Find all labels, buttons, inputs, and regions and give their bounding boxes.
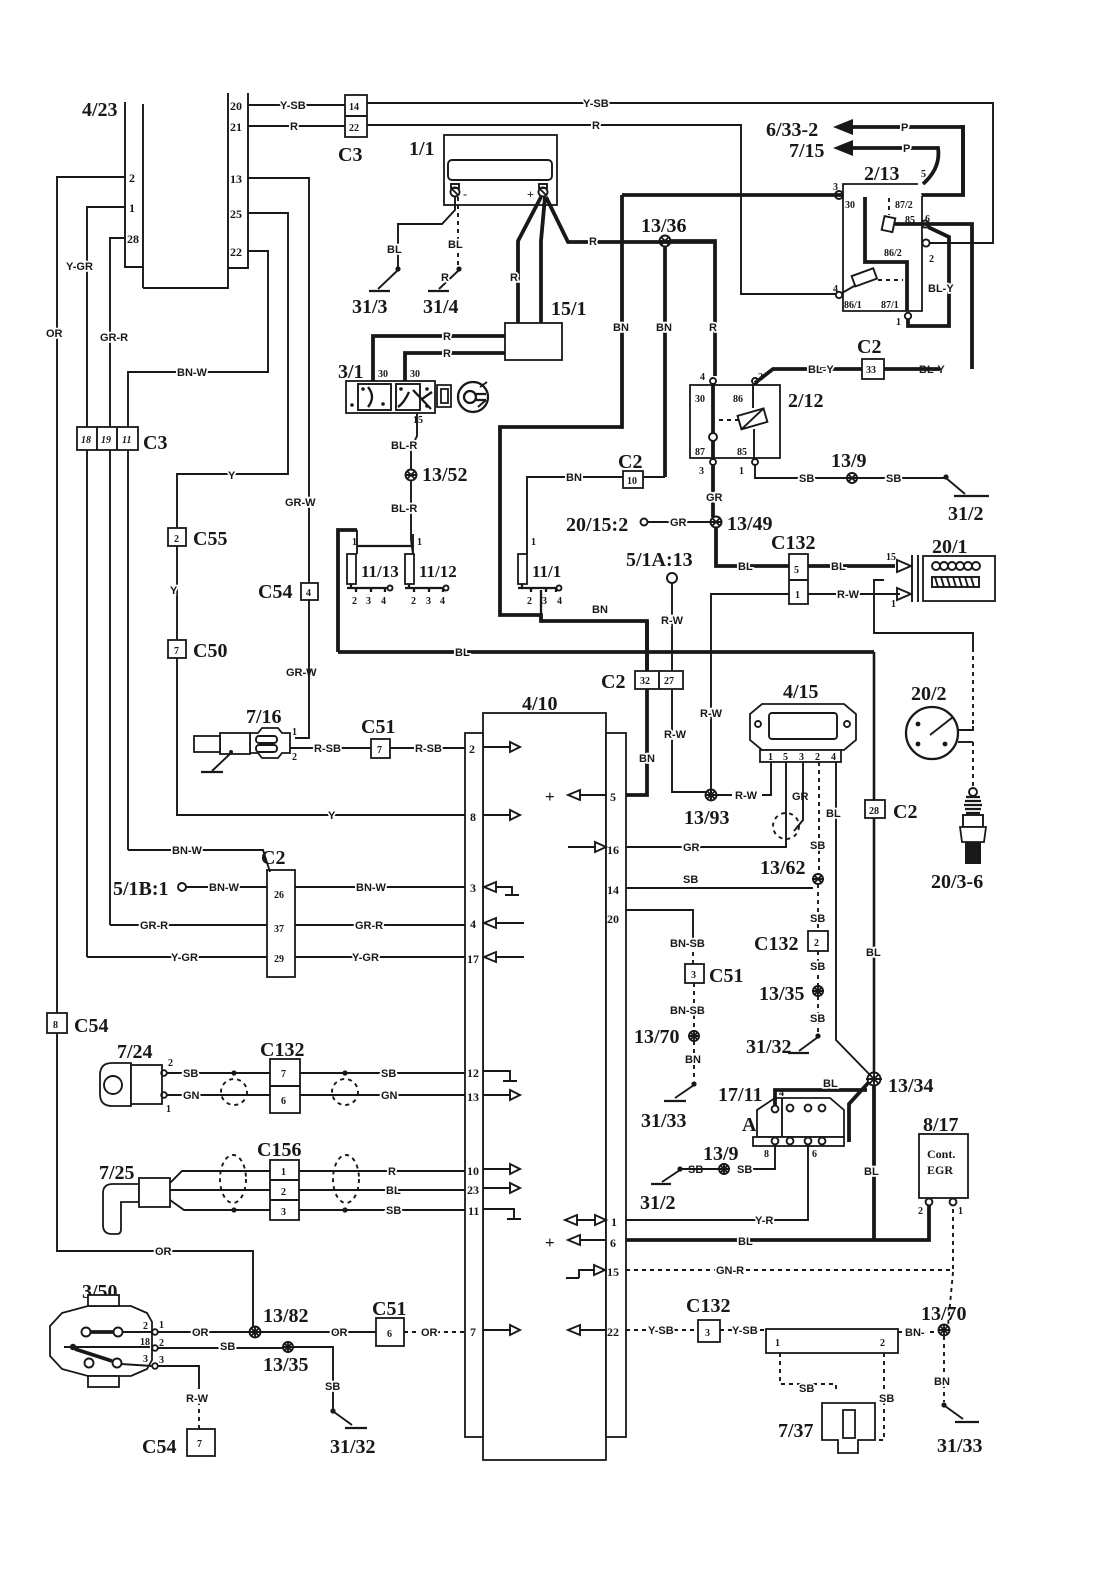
wire BL 13/34 shield branch (849, 1082, 869, 1142)
wire BL thick horizontal (338, 650, 874, 654)
svg-text:30: 30 (695, 394, 705, 405)
svg-text:BN-: BN- (905, 1327, 925, 1339)
wire thick 30-feed to relay 2/13 (622, 125, 963, 195)
svg-text:4: 4 (557, 596, 562, 607)
svg-text:2: 2 (174, 534, 179, 545)
svg-text:87/2: 87/2 (895, 200, 913, 211)
relay 2/13 (833, 163, 972, 369)
svg-text:4: 4 (381, 596, 386, 607)
ECU 4/10 main box (465, 693, 626, 1460)
wire SB C156:3 to ECU pin11 (299, 1209, 465, 1211)
wire R top long (367, 125, 836, 294)
svg-text:15: 15 (886, 552, 896, 563)
svg-text:C3: C3 (143, 432, 167, 454)
svg-text:C132: C132 (771, 532, 815, 554)
svg-text:GR-W: GR-W (286, 667, 317, 679)
svg-text:18: 18 (81, 435, 91, 446)
svg-text:20/3-6: 20/3-6 (931, 871, 983, 893)
wire SB C132:2 to 13/35 (817, 951, 819, 986)
svg-text:13/9: 13/9 (831, 450, 867, 472)
wire BN-W from pin 22 (128, 251, 268, 427)
svg-text:R-W: R-W (700, 708, 723, 720)
svg-text:Y: Y (170, 585, 178, 597)
svg-text:SB: SB (799, 1383, 814, 1395)
svg-text:GR-R: GR-R (140, 920, 168, 932)
svg-text:4: 4 (306, 588, 311, 599)
svg-text:7: 7 (174, 646, 179, 657)
ground 31/32 (815, 1033, 820, 1038)
svg-text:7/16: 7/16 (246, 706, 282, 728)
EGR solenoid 7/37 (778, 1403, 875, 1453)
svg-text:C55: C55 (193, 528, 227, 550)
wire BN-W C2:26 to ECU pin3 (295, 886, 465, 888)
svg-text:4: 4 (470, 917, 476, 931)
svg-text:OR: OR (46, 328, 63, 340)
svg-text:BN: BN (656, 322, 672, 334)
svg-text:SB: SB (381, 1068, 396, 1080)
svg-text:6: 6 (387, 1329, 392, 1340)
ECU left pin strip (465, 733, 483, 1437)
svg-text:23: 23 (467, 1183, 479, 1197)
svg-text:3: 3 (542, 596, 547, 607)
junction 13/9 bottom (719, 1164, 729, 1174)
svg-text:3/1: 3/1 (338, 361, 364, 383)
wire SB C132:7 to ECU pin12 (300, 1072, 465, 1074)
svg-text:7/24: 7/24 (117, 1041, 153, 1063)
wire GN-R corner to 13/70 (948, 1272, 953, 1326)
svg-text:BL: BL (823, 1078, 838, 1090)
wire SB 7/25 to C156:3 (170, 1200, 270, 1210)
wire R battery plus to 15/1 (two leads) (518, 197, 541, 323)
junction 13/52 (406, 470, 417, 481)
svg-text:3: 3 (470, 881, 476, 895)
svg-text:37: 37 (274, 924, 284, 935)
svg-text:4: 4 (700, 372, 705, 383)
wire R-W 3/50 pin3 to C54:7 (158, 1366, 199, 1385)
svg-text:BL-R: BL-R (391, 503, 417, 515)
connector 7/37 bar (766, 1329, 898, 1353)
wire HT coil to distributor (874, 580, 973, 648)
ECU pin3 arrow (484, 882, 496, 892)
junction 13/93 (706, 790, 717, 801)
wire Y-SB from pin 20 to C3 (248, 104, 345, 106)
svg-text:1: 1 (958, 1206, 963, 1217)
connector C3 (18/19/11) (77, 427, 138, 450)
svg-text:SB: SB (810, 840, 825, 852)
svg-text:Y-GR: Y-GR (66, 261, 93, 273)
svg-text:SB: SB (810, 913, 825, 925)
spark plug 20/3-6 (931, 788, 986, 893)
junction 13/62 (813, 874, 823, 884)
svg-text:1: 1 (166, 1104, 171, 1115)
junction 13/36 (641, 215, 687, 247)
svg-text:5/1A:13: 5/1A:13 (626, 549, 693, 571)
svg-text:13/35: 13/35 (759, 983, 805, 1005)
svg-text:OR: OR (421, 1327, 438, 1339)
svg-text:7: 7 (281, 1069, 286, 1080)
wire Y-GR into C2:29 (87, 956, 267, 958)
svg-text:GR-R: GR-R (100, 332, 128, 344)
svg-text:2: 2 (918, 1206, 923, 1217)
svg-text:15: 15 (607, 1265, 619, 1279)
svg-text:R-W: R-W (661, 615, 684, 627)
relay 2/13 pin 3 (835, 191, 843, 199)
svg-text:P: P (901, 122, 908, 134)
wire OR 13/82 to C51:6 (261, 1331, 376, 1333)
svg-text:31/2: 31/2 (640, 1192, 676, 1214)
connector C54:8 (47, 1013, 67, 1033)
svg-text:C3: C3 (338, 144, 362, 166)
ECU pin2 arrow (483, 746, 511, 748)
svg-text:13/70: 13/70 (921, 1303, 967, 1325)
svg-text:2: 2 (292, 752, 297, 763)
connector C3 (14/22) (345, 95, 367, 137)
wire Y-SB ECU pin22 to C132:3 (626, 1329, 698, 1331)
svg-text:3: 3 (159, 1355, 164, 1366)
svg-text:28: 28 (127, 232, 139, 246)
wire GR-R C2:37 to ECU pin4 (295, 924, 465, 926)
svg-text:8: 8 (764, 1149, 769, 1160)
svg-text:BN-SB: BN-SB (670, 1005, 705, 1017)
svg-text:SB: SB (386, 1205, 401, 1217)
svg-text:11: 11 (122, 435, 131, 446)
svg-text:86: 86 (733, 394, 743, 405)
wire R-W 13/93 to 4/15 pin1 (717, 762, 771, 795)
svg-text:Y-R: Y-R (755, 1215, 773, 1227)
wire BN from 13/36 down (663, 246, 667, 477)
svg-text:30: 30 (410, 369, 420, 380)
svg-text:13/35: 13/35 (263, 1354, 309, 1376)
svg-text:SB: SB (810, 961, 825, 973)
svg-text:Y-SB: Y-SB (732, 1325, 758, 1337)
resistor 11/13 (338, 530, 413, 652)
svg-text:R-SB: R-SB (314, 743, 341, 755)
wire BN-W into C2:26 (128, 850, 270, 872)
svg-text:BN: BN (566, 472, 582, 484)
ECU pin8 arrow (483, 814, 511, 816)
wire R 15/1 to 3/1 pin30 b (405, 353, 505, 381)
svg-text:1: 1 (352, 537, 357, 548)
wire OR C51:6 to ECU pin7 (404, 1331, 465, 1333)
svg-text:13/9: 13/9 (703, 1143, 739, 1165)
wire BL-R 3/1 pin15 to 13/52 (411, 413, 417, 470)
svg-text:C132: C132 (260, 1039, 304, 1061)
wire BN-W continuing down (127, 450, 129, 850)
svg-text:2: 2 (129, 171, 135, 185)
wire R battery plus to 13/36 (546, 197, 713, 242)
wire BN feed left branch (500, 195, 647, 689)
svg-text:C132: C132 (754, 933, 798, 955)
wire BL 13/34 down to pin6 run (872, 1085, 876, 1240)
svg-text:BN-W: BN-W (356, 882, 387, 894)
connector C55 (168, 528, 186, 546)
wire BL 4/15 pin4 to 13/34 (836, 762, 871, 1076)
svg-text:1: 1 (795, 590, 800, 601)
svg-text:SB: SB (325, 1381, 340, 1393)
wire Y-R 17/11 pin6 to ECU pin1 (626, 1145, 808, 1220)
svg-text:2: 2 (527, 596, 532, 607)
svg-text:BL-R: BL-R (391, 440, 417, 452)
junction 13/34 (868, 1073, 881, 1086)
svg-text:7/25: 7/25 (99, 1162, 135, 1184)
svg-text:1: 1 (292, 727, 297, 738)
wire R 15/1 to 3/1 pin30 a (373, 336, 505, 381)
svg-text:2: 2 (411, 596, 416, 607)
svg-text:13/52: 13/52 (422, 464, 468, 486)
svg-text:R-W: R-W (664, 729, 687, 741)
svg-text:BL-Y: BL-Y (808, 364, 834, 376)
svg-text:1: 1 (159, 1320, 164, 1331)
distributor 20/2 (906, 683, 958, 759)
svg-text:13/36: 13/36 (641, 215, 687, 237)
wire SB 17/11 pin8 to 13/9 (746, 1145, 775, 1169)
svg-text:5: 5 (921, 169, 926, 180)
svg-text:BN: BN (613, 322, 629, 334)
wire BL ECU pin6 to 8/17 pin2 (626, 1205, 929, 1240)
ECU pin1 double arrow (565, 1215, 606, 1225)
svg-text:3: 3 (691, 970, 696, 981)
wire BN through C2:32 to ECU pin5 (626, 621, 647, 795)
wire GR 4/15 pin3 stub (794, 762, 803, 831)
svg-text:C132: C132 (686, 1295, 730, 1317)
3/1 connector tab (437, 385, 451, 407)
svg-text:3: 3 (799, 752, 804, 763)
ignition lock 3/50 (50, 1281, 164, 1387)
svg-text:C2: C2 (857, 336, 881, 358)
junction 13/35 bottom (283, 1342, 293, 1352)
wire R 7/25 to C156:1 (170, 1171, 270, 1183)
junction 13/9 top (847, 473, 857, 483)
wire Y C50 to ECU pin8 (177, 658, 465, 815)
svg-text:GR-R: GR-R (355, 920, 383, 932)
svg-text:31/33: 31/33 (937, 1435, 983, 1457)
junction 13/82 (250, 1327, 261, 1338)
svg-text:29: 29 (274, 954, 284, 965)
svg-text:R: R (592, 120, 600, 132)
svg-text:-: - (463, 187, 467, 201)
svg-text:13/62: 13/62 (760, 857, 806, 879)
wire GR-W from pin 13 (248, 178, 309, 583)
svg-text:2: 2 (168, 1058, 173, 1069)
relay 2/12 contact (711, 384, 715, 433)
shield circle 7/24 left (221, 1079, 247, 1105)
svg-text:BL: BL (864, 1166, 879, 1178)
svg-text:30: 30 (378, 369, 388, 380)
svg-text:R-W: R-W (735, 790, 758, 802)
svg-text:31/32: 31/32 (746, 1036, 792, 1058)
svg-text:C54: C54 (258, 581, 292, 603)
svg-text:GR: GR (683, 842, 700, 854)
wire BN 7/37 to 13/70 (898, 1331, 938, 1333)
ECU pin23 arrow (483, 1187, 511, 1189)
svg-text:Y-SB: Y-SB (583, 98, 609, 110)
svg-text:13: 13 (467, 1090, 479, 1104)
svg-text:13: 13 (230, 172, 242, 186)
wire BL 7/25 to C156:2 (170, 1189, 270, 1191)
svg-text:15: 15 (413, 415, 423, 426)
wire BL-R 13/52 to 11/12 (411, 480, 413, 554)
svg-text:30: 30 (845, 200, 855, 211)
wire SB 13/62 to C132:2 (817, 884, 819, 931)
svg-text:85: 85 (737, 447, 747, 458)
connector 4/23 left column (125, 102, 143, 288)
svg-text:5: 5 (610, 790, 616, 804)
shield ellipse 7/25 right (333, 1155, 359, 1203)
svg-text:1: 1 (281, 1167, 286, 1178)
svg-text:5: 5 (794, 565, 799, 576)
relay 2/12 coil (738, 408, 768, 429)
wire SB 7/37 pin1 (780, 1353, 836, 1392)
speed sensor 7/25 (99, 1162, 170, 1234)
svg-text:4: 4 (831, 752, 836, 763)
svg-text:BL: BL (387, 244, 402, 256)
svg-text:2: 2 (352, 596, 357, 607)
svg-text:2/12: 2/12 (788, 390, 824, 412)
svg-text:3: 3 (705, 1328, 710, 1339)
wire R-W C132:1 to coil 20/1 (808, 593, 900, 595)
svg-text:+: + (545, 1233, 555, 1252)
wire Y-GR C2:29 to ECU pin17 (295, 956, 465, 958)
svg-text:OR: OR (155, 1246, 172, 1258)
svg-text:16: 16 (607, 843, 619, 857)
svg-text:EGR: EGR (927, 1163, 953, 1177)
svg-text:22: 22 (349, 123, 359, 134)
svg-text:BL: BL (738, 561, 753, 573)
svg-text:27: 27 (664, 676, 674, 687)
ignition switch 3/1 (338, 361, 488, 426)
svg-text:R: R (709, 322, 717, 334)
svg-text:2: 2 (929, 254, 934, 265)
svg-text:GR: GR (670, 517, 687, 529)
svg-text:87/1: 87/1 (881, 300, 899, 311)
svg-text:4/23: 4/23 (82, 99, 118, 121)
svg-text:GN: GN (183, 1090, 200, 1102)
svg-text:20: 20 (607, 912, 619, 926)
wire GR 4/15 pin5 to ECU pin16 (626, 762, 786, 847)
svg-text:SB: SB (683, 874, 698, 886)
wire GR-R into C2:37 (110, 924, 267, 926)
svg-text:BN-W: BN-W (209, 882, 240, 894)
svg-text:2/13: 2/13 (864, 163, 900, 185)
connector C51:3 (685, 964, 704, 983)
relay 2/13 coil (888, 198, 890, 215)
wire R-SB C51:7 to ECU pin2 (390, 747, 465, 749)
ECU pin7 arrow (483, 1329, 511, 1331)
svg-text:BN: BN (592, 604, 608, 616)
wire SB 13/35 to ground (817, 996, 819, 1033)
wire BN-SB C51:3 to 13/70 (693, 983, 695, 1031)
svg-text:R: R (441, 272, 449, 284)
svg-text:BL: BL (866, 947, 881, 959)
svg-text:Y-SB: Y-SB (648, 1325, 674, 1337)
svg-text:86/1: 86/1 (844, 300, 862, 311)
relay 2/13 pin 4 (836, 292, 842, 298)
svg-text:GR: GR (706, 492, 723, 504)
svg-text:6: 6 (281, 1096, 286, 1107)
svg-text:2: 2 (143, 1321, 148, 1332)
shield circle 4/15 (773, 813, 799, 839)
svg-text:26: 26 (274, 890, 284, 901)
svg-text:7: 7 (197, 1439, 202, 1450)
resistor 11/12 (405, 534, 457, 607)
svg-text:+: + (545, 787, 555, 806)
svg-text:R: R (510, 272, 518, 284)
svg-text:1: 1 (417, 537, 422, 548)
svg-text:22: 22 (607, 1325, 619, 1339)
svg-text:1/1: 1/1 (409, 138, 435, 160)
ECU pin17 arrow (484, 952, 496, 962)
svg-text:3: 3 (699, 466, 704, 477)
svg-text:Y: Y (328, 810, 336, 822)
wire R 13/36 to relay 2/12 pin4 (669, 241, 715, 376)
svg-text:13/70: 13/70 (634, 1026, 680, 1048)
ECU pin22 arrow (568, 1325, 580, 1335)
svg-text:8: 8 (53, 1020, 58, 1031)
wire BN 13/70 to ground 31/33 (693, 1041, 695, 1081)
svg-text:11: 11 (468, 1204, 479, 1218)
svg-text:BN: BN (639, 753, 655, 765)
svg-text:31/2: 31/2 (948, 503, 984, 525)
ECU pin10 arrow (483, 1168, 511, 1170)
wire SB 13/35 to ground 31/32 (293, 1347, 333, 1409)
svg-text:7: 7 (377, 745, 382, 756)
wire Y-SB C132:3 to 7/37 connector (720, 1329, 766, 1331)
svg-text:12: 12 (467, 1066, 479, 1080)
wire BL battery minus right (457, 197, 459, 266)
shield ellipse 7/25 left (220, 1155, 246, 1203)
svg-text:5/1B:1: 5/1B:1 (113, 878, 169, 900)
svg-text:1: 1 (775, 1338, 780, 1349)
svg-text:R: R (443, 331, 451, 343)
svg-text:14: 14 (349, 102, 359, 113)
wire BL C156:2 to ECU pin23 (299, 1189, 465, 1191)
svg-text:R-SB: R-SB (415, 743, 442, 755)
connector 4/23 right column (143, 93, 248, 288)
svg-text:3: 3 (366, 596, 371, 607)
relay 2/13 pin 85 wire (895, 224, 972, 369)
wire Y-GR continuing down (86, 450, 88, 957)
svg-text:1: 1 (611, 1215, 617, 1229)
svg-text:BL: BL (455, 647, 470, 659)
svg-text:SB: SB (886, 473, 901, 485)
wire distributor to spark plug (958, 741, 973, 743)
svg-text:C50: C50 (193, 640, 227, 662)
svg-text:R: R (290, 121, 298, 133)
svg-text:R-W: R-W (186, 1393, 209, 1405)
svg-text:10: 10 (627, 476, 637, 487)
svg-text:2: 2 (880, 1338, 885, 1349)
wire BL C132 to coil 20/1 (808, 564, 895, 568)
svg-text:7: 7 (470, 1325, 476, 1339)
svg-text:Y-GR: Y-GR (352, 952, 379, 964)
svg-text:31/4: 31/4 (423, 296, 459, 318)
svg-text:20/1: 20/1 (932, 536, 968, 558)
svg-text:25: 25 (230, 207, 242, 221)
svg-text:13/49: 13/49 (727, 513, 773, 535)
svg-text:31/3: 31/3 (352, 296, 388, 318)
svg-text:R: R (388, 1166, 396, 1178)
svg-text:4/15: 4/15 (783, 681, 819, 703)
wire R-W C132:1 branch down (711, 594, 789, 792)
ECU pin16 arrow (568, 846, 596, 848)
svg-text:11/13: 11/13 (361, 562, 399, 581)
svg-text:1: 1 (896, 317, 901, 328)
svg-text:22: 22 (230, 245, 242, 259)
wire BL battery minus left (398, 197, 455, 268)
junction 13/70 bottom (939, 1325, 950, 1336)
wire BN-SB ECU pin20 chain (626, 910, 693, 936)
svg-text:BL: BL (826, 808, 841, 820)
